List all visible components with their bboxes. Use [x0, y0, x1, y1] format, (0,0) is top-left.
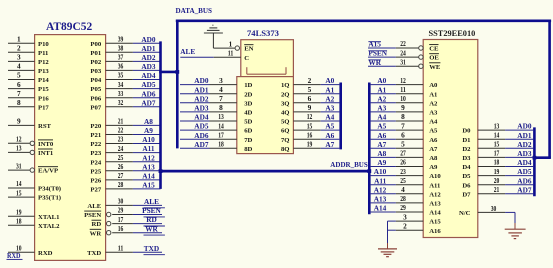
svg-text:4: 4	[401, 185, 405, 194]
svg-text:P03: P03	[90, 68, 101, 75]
svg-text:ALE: ALE	[144, 197, 159, 206]
svg-text:24: 24	[118, 144, 124, 153]
svg-text:7Q: 7Q	[281, 137, 290, 144]
U1 pin 38 P01 / net AD1	[90, 44, 160, 57]
bus branch from right vertical to U3 data bus	[533, 156, 551, 159]
U1 pin 25 P24 / net A12	[90, 153, 160, 166]
U2 pin 16 7Q / net A6	[281, 130, 339, 143]
svg-text:6Q: 6Q	[281, 128, 290, 135]
svg-text:A0: A0	[429, 82, 438, 89]
U1 pin 14 P34(T0) (left)	[8, 179, 61, 192]
U3 pin 4 A12 / net A12	[371, 185, 442, 198]
svg-text:P21: P21	[90, 132, 101, 139]
svg-text:CE: CE	[429, 46, 439, 53]
bus branch from U1 bus to U2 input bus	[159, 71, 179, 74]
svg-text:P05: P05	[90, 86, 101, 93]
svg-text:31: 31	[16, 161, 22, 170]
svg-text:P02: P02	[90, 59, 101, 66]
svg-text:17: 17	[218, 130, 224, 139]
svg-text:N/C: N/C	[459, 210, 471, 217]
svg-text:39: 39	[118, 34, 124, 43]
svg-text:A8: A8	[144, 117, 153, 126]
svg-text:PSEN: PSEN	[368, 49, 387, 58]
svg-text:A4: A4	[325, 113, 334, 122]
svg-text:ALE: ALE	[180, 47, 195, 56]
svg-text:3: 3	[219, 76, 223, 85]
svg-text:AD7: AD7	[194, 140, 209, 149]
U3 pin 23 A10 / net A10	[371, 167, 442, 180]
svg-text:A15: A15	[429, 219, 441, 226]
svg-text:A15: A15	[142, 181, 155, 190]
svg-text:OE: OE	[429, 55, 439, 62]
svg-text:AD6: AD6	[194, 131, 209, 140]
svg-text:P27: P27	[90, 187, 101, 194]
svg-text:A12: A12	[429, 191, 441, 198]
U2 pin 3 1D / net AD0	[180, 76, 253, 89]
svg-text:D1: D1	[462, 137, 470, 144]
U1 pin 23 P22 / net A10	[90, 135, 160, 148]
svg-text:13: 13	[16, 144, 22, 153]
svg-text:11: 11	[400, 85, 406, 94]
svg-text:27: 27	[118, 171, 124, 180]
IC U2 title 74LS373	[247, 29, 279, 38]
U2 pin 9 4Q / net A3	[281, 103, 339, 116]
svg-text:35: 35	[118, 71, 124, 80]
svg-text:29: 29	[400, 203, 406, 212]
svg-text:ALE: ALE	[87, 203, 101, 210]
U3 pin 8 A4 / net A4	[371, 112, 438, 125]
svg-text:13: 13	[218, 112, 224, 121]
svg-text:6: 6	[401, 130, 405, 139]
svg-text:6: 6	[308, 94, 312, 103]
U1 pin 37 P02 / net AD2	[90, 53, 160, 66]
svg-text:A2: A2	[325, 94, 334, 103]
U3 pin 13 D0 / net AD0	[462, 121, 533, 134]
U3 pin 26 A9 / net A9	[371, 158, 438, 171]
svg-text:21: 21	[118, 117, 124, 126]
svg-text:14: 14	[218, 121, 224, 130]
svg-text:AD1: AD1	[517, 131, 532, 140]
U2 output bus vertical (A0-A7)	[339, 83, 342, 150]
svg-text:A0: A0	[325, 76, 334, 85]
svg-text:4D: 4D	[244, 110, 252, 117]
svg-text:24: 24	[400, 48, 406, 57]
IC U1 AT89C52 body	[35, 35, 106, 261]
svg-text:A12: A12	[142, 153, 155, 162]
U2 pin 15 6Q / net A5	[281, 121, 339, 134]
svg-text:18: 18	[16, 217, 22, 226]
U1 pin 33 P06 / net AD6	[90, 89, 160, 102]
svg-text:A10: A10	[374, 167, 387, 176]
svg-text:P22: P22	[90, 141, 101, 148]
svg-text:12: 12	[16, 135, 22, 144]
svg-text:19: 19	[307, 140, 313, 149]
ground symbol at U2 EN pin (earth, bars up)	[204, 25, 223, 48]
svg-text:A14: A14	[142, 172, 155, 181]
svg-text:EA/VP: EA/VP	[38, 168, 58, 175]
svg-text:XTAL1: XTAL1	[38, 214, 59, 221]
svg-text:A2: A2	[429, 100, 438, 107]
svg-text:A3: A3	[429, 110, 438, 117]
U3 pin 30 N/C wire to ground	[459, 204, 515, 229]
U2 pin 7 3D / net AD2	[180, 94, 253, 107]
svg-text:4: 4	[17, 62, 21, 71]
svg-text:8: 8	[219, 103, 223, 112]
svg-text:30: 30	[118, 197, 124, 206]
svg-text:15: 15	[307, 121, 313, 130]
U3 pin 12 A0 / net A0	[371, 76, 438, 89]
svg-text:2: 2	[403, 222, 407, 231]
U3 pin 11 A1 / net A1	[371, 85, 438, 98]
svg-text:A0: A0	[377, 76, 386, 85]
U2 pin 12 5Q / net A4	[281, 112, 339, 125]
svg-text:34: 34	[118, 80, 124, 89]
U1 pin 11 TXD / net TXD	[87, 244, 165, 257]
svg-text:PSEN: PSEN	[84, 212, 101, 219]
U3 pin 29 A14 / net A14	[371, 203, 442, 216]
svg-text:22: 22	[118, 126, 124, 135]
svg-text:WR: WR	[368, 58, 381, 67]
svg-text:AD5: AD5	[141, 80, 156, 89]
U3 pin 20 D6 / net AD6	[462, 176, 533, 189]
U1 pin 27 P26 / net A14	[90, 171, 160, 184]
svg-text:WR: WR	[145, 224, 158, 233]
U1 pin 32 P07 / net AD7	[90, 98, 160, 111]
svg-text:D2: D2	[462, 146, 471, 153]
U2 pin 14 6D / net AD5	[180, 121, 253, 134]
DATA_BUS right vertical drop at sheet right edge	[548, 21, 551, 158]
net label RXD at U1 pin 10	[7, 251, 23, 260]
U3 pin 31 WE / net WR (active low, bubble)	[368, 57, 441, 70]
svg-text:27: 27	[400, 149, 406, 158]
svg-text:26: 26	[400, 158, 406, 167]
U3 pin 14 D1 / net AD1	[462, 130, 533, 143]
svg-text:A5: A5	[325, 122, 334, 131]
wire joining U3 A15/A16 pins down to ground	[387, 221, 389, 249]
svg-text:13: 13	[494, 121, 500, 130]
U1 pin 29 PSEN / net PSEN	[84, 206, 165, 219]
svg-text:A12: A12	[374, 185, 387, 194]
DATA_BUS label	[176, 6, 213, 15]
svg-text:17: 17	[494, 149, 500, 158]
svg-text:A13: A13	[429, 201, 441, 208]
svg-text:DATA_BUS: DATA_BUS	[176, 6, 213, 15]
svg-text:P20: P20	[90, 123, 101, 130]
svg-text:8D: 8D	[244, 146, 252, 153]
svg-text:AD0: AD0	[194, 76, 209, 85]
svg-text:12: 12	[400, 76, 406, 85]
svg-text:A8: A8	[377, 149, 386, 158]
svg-text:25: 25	[118, 153, 124, 162]
svg-text:D7: D7	[462, 191, 471, 198]
U1 pin 5 P14 (left)	[8, 71, 49, 84]
svg-text:INT1: INT1	[38, 150, 53, 157]
bus junction at U3 data bus / DATA_BUS branch tee	[533, 156, 537, 160]
IC U2 74LS373 body (control block + main block)	[237, 40, 294, 154]
svg-text:RD: RD	[146, 215, 157, 224]
svg-text:A3: A3	[377, 104, 386, 113]
svg-text:AD0: AD0	[141, 35, 156, 44]
svg-text:32: 32	[118, 98, 124, 107]
U3 pin 10 A2 / net A2	[371, 94, 438, 107]
svg-text:A15: A15	[368, 40, 381, 49]
svg-text:AD7: AD7	[517, 185, 532, 194]
svg-text:AD2: AD2	[194, 94, 209, 103]
svg-text:7D: 7D	[244, 137, 252, 144]
svg-text:36: 36	[118, 62, 124, 71]
svg-text:1: 1	[229, 40, 233, 49]
U1 pin 35 P04 / net AD4	[90, 71, 160, 84]
svg-text:AD1: AD1	[194, 85, 209, 94]
svg-text:A7: A7	[325, 140, 334, 149]
ADDR_BUS label	[330, 160, 368, 169]
U3 pin 6 A6 / net A6	[371, 130, 438, 143]
svg-text:WE: WE	[429, 64, 441, 71]
U1 pin 24 P23 / net A11	[90, 144, 160, 157]
U1 pin 13 INT1 (left)	[8, 144, 53, 157]
svg-text:28: 28	[400, 194, 406, 203]
U3 pin 9 A3 / net A3	[371, 103, 438, 116]
svg-text:INT0: INT0	[38, 141, 54, 148]
U2 pin 13 5D / net AD4	[180, 112, 253, 125]
svg-text:A14: A14	[429, 210, 441, 217]
svg-text:31: 31	[400, 57, 406, 66]
svg-text:EN: EN	[244, 46, 253, 53]
svg-text:P17: P17	[38, 104, 49, 111]
svg-text:A16: A16	[429, 228, 441, 235]
svg-text:A14: A14	[374, 204, 387, 213]
svg-text:P35(T1): P35(T1)	[38, 195, 61, 202]
ADDR_BUS horizontal bus	[159, 170, 370, 173]
ground symbol below U3 A15/A16 (earth)	[378, 249, 397, 257]
U3 pin 18 D4 / net AD4	[462, 158, 533, 171]
svg-text:3Q: 3Q	[281, 100, 290, 107]
U1 pin 16 WR / net WR	[90, 224, 165, 237]
svg-text:AD6: AD6	[141, 89, 156, 98]
svg-text:33: 33	[118, 89, 124, 98]
svg-text:15: 15	[494, 140, 500, 149]
U1 pin 2 P11 (left)	[8, 44, 48, 57]
svg-text:28: 28	[118, 180, 124, 189]
svg-text:P24: P24	[90, 159, 101, 166]
bus junction at U1 bus / ADDR_BUS tee	[159, 169, 163, 173]
svg-text:P13: P13	[38, 68, 49, 75]
U2 pin 18 8D / net AD7	[180, 140, 253, 153]
svg-text:30: 30	[491, 204, 497, 213]
DATA_BUS top horizontal bus	[176, 19, 551, 22]
U3 pin 25 A11 / net A11	[371, 176, 441, 189]
svg-text:29: 29	[118, 206, 124, 215]
U2 pin 5 2Q / net A1	[281, 85, 339, 98]
svg-text:P12: P12	[38, 59, 49, 66]
U1 pin 36 P03 / net AD3	[90, 62, 160, 75]
U2 pin 2 1Q / net A0	[281, 76, 339, 89]
U1 pin 22 P21 / net A9	[90, 126, 160, 139]
svg-text:RST: RST	[38, 123, 52, 130]
svg-text:19: 19	[494, 167, 500, 176]
svg-text:8: 8	[17, 98, 21, 107]
U1 pin 28 P27 / net A15	[90, 180, 160, 193]
svg-text:17: 17	[118, 215, 124, 224]
svg-text:A5: A5	[377, 122, 386, 131]
U2 pin 17 7D / net AD6	[180, 130, 253, 143]
svg-text:74LS373: 74LS373	[247, 29, 279, 38]
svg-text:A4: A4	[429, 119, 438, 126]
svg-text:A1: A1	[325, 85, 334, 94]
svg-text:A7: A7	[429, 146, 438, 153]
svg-text:23: 23	[118, 135, 124, 144]
svg-text:7: 7	[401, 121, 405, 130]
svg-text:1Q: 1Q	[281, 82, 290, 89]
svg-text:D5: D5	[462, 173, 471, 180]
svg-text:20: 20	[494, 176, 500, 185]
svg-text:6D: 6D	[244, 128, 252, 135]
svg-text:38: 38	[118, 44, 124, 53]
svg-text:A9: A9	[429, 164, 438, 171]
U1 pin 15 P35(T1) (left)	[8, 188, 61, 201]
U1 pin 9 RST (left)	[8, 117, 52, 130]
U3 data output bus vertical (AD0-AD7)	[533, 127, 536, 196]
svg-text:AD5: AD5	[517, 167, 532, 176]
svg-text:A11: A11	[374, 176, 387, 185]
svg-text:P15: P15	[38, 86, 49, 93]
svg-text:37: 37	[118, 53, 124, 62]
svg-text:TXD: TXD	[144, 244, 159, 253]
U3 pin 15 D2 / net AD2	[462, 140, 533, 153]
U2 pin 4 2D / net AD1	[180, 85, 253, 98]
svg-text:A6: A6	[325, 131, 334, 140]
svg-text:9: 9	[401, 103, 405, 112]
svg-text:2D: 2D	[244, 91, 252, 98]
U1 pin 34 P05 / net AD5	[90, 80, 160, 93]
IC U1 title AT89C52	[46, 19, 92, 33]
svg-text:5: 5	[401, 140, 405, 149]
svg-text:2Q: 2Q	[281, 91, 290, 98]
bus junction at U2 input bus / DATA_BUS branch tee	[175, 70, 179, 74]
svg-text:P07: P07	[90, 104, 101, 111]
svg-text:7: 7	[17, 89, 21, 98]
svg-text:8Q: 8Q	[281, 146, 290, 153]
svg-text:14: 14	[16, 179, 22, 188]
svg-text:12: 12	[307, 112, 313, 121]
U2 pin 6 3Q / net A2	[281, 94, 339, 107]
svg-text:16: 16	[118, 224, 124, 233]
svg-text:10: 10	[400, 94, 406, 103]
svg-text:P25: P25	[90, 168, 101, 175]
svg-text:C: C	[244, 55, 249, 62]
U1 pin 21 P20 / net A8	[90, 117, 160, 130]
svg-text:23: 23	[400, 167, 406, 176]
U1 pin 31 EA/VP (left)	[8, 161, 58, 174]
U1 pin 4 P13 (left)	[8, 62, 49, 75]
svg-text:8: 8	[401, 112, 405, 121]
svg-text:11: 11	[118, 244, 124, 253]
svg-text:4Q: 4Q	[281, 110, 290, 117]
svg-text:3: 3	[403, 213, 407, 222]
svg-text:D3: D3	[462, 155, 471, 162]
U3 pin 17 D3 / net AD3	[462, 149, 533, 162]
svg-text:3D: 3D	[244, 100, 252, 107]
svg-text:AD4: AD4	[141, 71, 156, 80]
U1 pin 19 XTAL1 (left)	[8, 207, 59, 220]
svg-text:P06: P06	[90, 95, 101, 102]
U2 pin 19 8Q / net A7	[281, 140, 339, 153]
svg-text:3: 3	[17, 53, 21, 62]
svg-text:AD2: AD2	[517, 140, 532, 149]
U1 pin 3 P12 (left)	[8, 53, 49, 66]
U1 pin 12 INT0 (left)	[8, 135, 54, 148]
U3 pin 22 CE / net A15 (active low, bubble)	[368, 39, 439, 52]
svg-text:A10: A10	[142, 135, 155, 144]
IC U3 title SST29EE010	[429, 28, 476, 38]
svg-text:D0: D0	[462, 128, 471, 135]
svg-text:25: 25	[400, 176, 406, 185]
U1 pin 39 P00 / net AD0	[90, 34, 160, 47]
svg-text:7: 7	[219, 94, 223, 103]
svg-text:PSEN: PSEN	[142, 206, 161, 215]
svg-text:A9: A9	[144, 126, 153, 135]
U1 pin 26 P25 / net A13	[90, 162, 160, 175]
svg-text:A1: A1	[377, 85, 386, 94]
svg-text:A8: A8	[429, 155, 438, 162]
svg-text:5: 5	[17, 71, 21, 80]
U3 pin 2 A16 (tied low)	[388, 222, 442, 235]
svg-text:1: 1	[17, 34, 21, 43]
U1 pin 7 P16 (left)	[8, 89, 49, 102]
svg-text:1D: 1D	[244, 82, 252, 89]
svg-text:ADDR_BUS: ADDR_BUS	[330, 160, 368, 169]
svg-text:A11: A11	[429, 182, 440, 189]
svg-text:19: 19	[16, 207, 22, 216]
svg-text:RD: RD	[92, 221, 102, 228]
U1 pin 18 XTAL2 (left)	[8, 217, 60, 230]
svg-text:2: 2	[308, 76, 312, 85]
svg-text:TXD: TXD	[87, 250, 101, 257]
U1 pin 17 RD / net RD	[92, 215, 165, 228]
svg-text:14: 14	[494, 130, 500, 139]
svg-text:15: 15	[16, 188, 22, 197]
U1 pin 10 RXD (left)	[8, 244, 53, 257]
ground symbol at U3 N/C pin (earth)	[505, 229, 526, 238]
svg-text:A6: A6	[429, 137, 438, 144]
svg-text:A9: A9	[377, 158, 386, 167]
svg-text:A6: A6	[377, 131, 386, 140]
svg-text:D4: D4	[462, 164, 471, 171]
bus junction at U3 address bus / ADDR_BUS tee	[367, 169, 371, 173]
U3 pin 19 D5 / net AD5	[462, 167, 533, 180]
svg-text:AD2: AD2	[141, 53, 156, 62]
U3 pin 21 D7 / net AD7	[462, 185, 533, 198]
svg-text:P16: P16	[38, 95, 49, 102]
svg-text:SST29EE010: SST29EE010	[429, 28, 476, 38]
svg-text:9: 9	[308, 103, 312, 112]
svg-text:P26: P26	[90, 178, 101, 185]
DATA_BUS left vertical drop to U2 inputs	[176, 21, 179, 149]
U3 pin 7 A5 / net A5	[371, 121, 438, 134]
U3 pin 24 OE / net PSEN (active low, bubble)	[368, 48, 439, 61]
svg-text:AD5: AD5	[194, 122, 209, 131]
svg-text:21: 21	[494, 185, 500, 194]
svg-text:A11: A11	[142, 144, 155, 153]
svg-text:4: 4	[219, 85, 223, 94]
U1 pin 8 P17 (left)	[8, 98, 49, 111]
svg-text:5Q: 5Q	[281, 119, 290, 126]
svg-text:A3: A3	[325, 104, 334, 113]
svg-text:AD4: AD4	[194, 113, 209, 122]
data bus vertical beside U1 (AD0-AD7 / A8-A15)	[159, 41, 162, 189]
svg-text:P10: P10	[38, 41, 49, 48]
svg-text:XTAL2: XTAL2	[38, 223, 60, 230]
